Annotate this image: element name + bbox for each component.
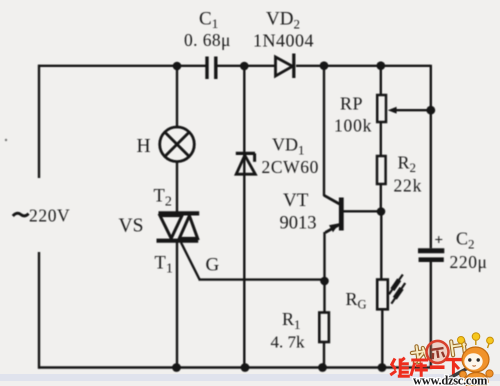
svg-text:VT: VT xyxy=(283,190,309,211)
svg-text:220μ: 220μ xyxy=(450,252,488,272)
svg-text:G: G xyxy=(206,255,220,276)
svg-text:220V: 220V xyxy=(29,206,70,226)
svg-text:RP: RP xyxy=(340,94,363,114)
svg-text:1N4004: 1N4004 xyxy=(253,31,314,51)
svg-text:www.dzsc.com: www.dzsc.com xyxy=(413,374,488,386)
svg-text:VS: VS xyxy=(119,216,144,237)
svg-text:2CW60: 2CW60 xyxy=(262,157,319,177)
svg-text:100k: 100k xyxy=(334,116,372,136)
svg-text:22k: 22k xyxy=(394,175,423,195)
svg-text:+: + xyxy=(435,233,444,249)
svg-text:0. 68μ: 0. 68μ xyxy=(184,30,231,50)
svg-text:9013: 9013 xyxy=(280,214,317,234)
svg-text:4. 7k: 4. 7k xyxy=(271,333,306,352)
svg-text:H: H xyxy=(137,136,151,157)
